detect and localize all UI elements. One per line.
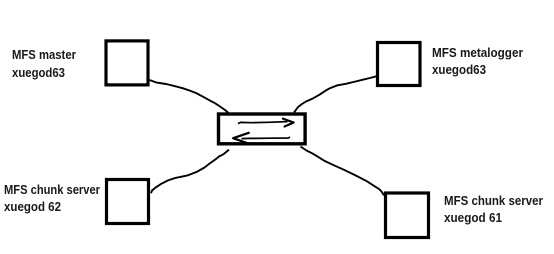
svg-text:MFS chunk server: MFS chunk server: [4, 182, 100, 197]
svg-text:MFS chunk server: MFS chunk server: [444, 193, 543, 208]
wire: metalogger box to switch: [294, 76, 376, 112]
arrow: left-pointing (inside switch, bottom): [242, 137, 290, 139]
arrowhead: right arrow: [283, 119, 294, 127]
svg-text:xuegod63: xuegod63: [432, 62, 486, 77]
svg-text:xuegod63: xuegod63: [12, 65, 65, 80]
arrowhead: left arrow: [233, 133, 249, 144]
arrow: right-pointing (inside switch, top): [238, 122, 288, 124]
svg-text:xuegod 62: xuegod 62: [4, 199, 61, 214]
box: MFS master server (top-left): [106, 41, 148, 85]
box: MFS chunk server (bottom-left): [107, 180, 149, 224]
wire: switch to chunk server 61: [301, 147, 385, 196]
svg-text:MFS metalogger: MFS metalogger: [432, 45, 523, 60]
switch: central network box: [219, 114, 306, 144]
svg-text:MFS master: MFS master: [12, 47, 76, 62]
svg-text:xuegod 61: xuegod 61: [444, 210, 502, 225]
box: MFS metalogger server (top-right): [378, 43, 421, 86]
box: MFS chunk server (bottom-right): [386, 193, 429, 238]
wire: switch to chunk server 62: [151, 150, 229, 194]
wire: master box to switch: [150, 80, 229, 113]
